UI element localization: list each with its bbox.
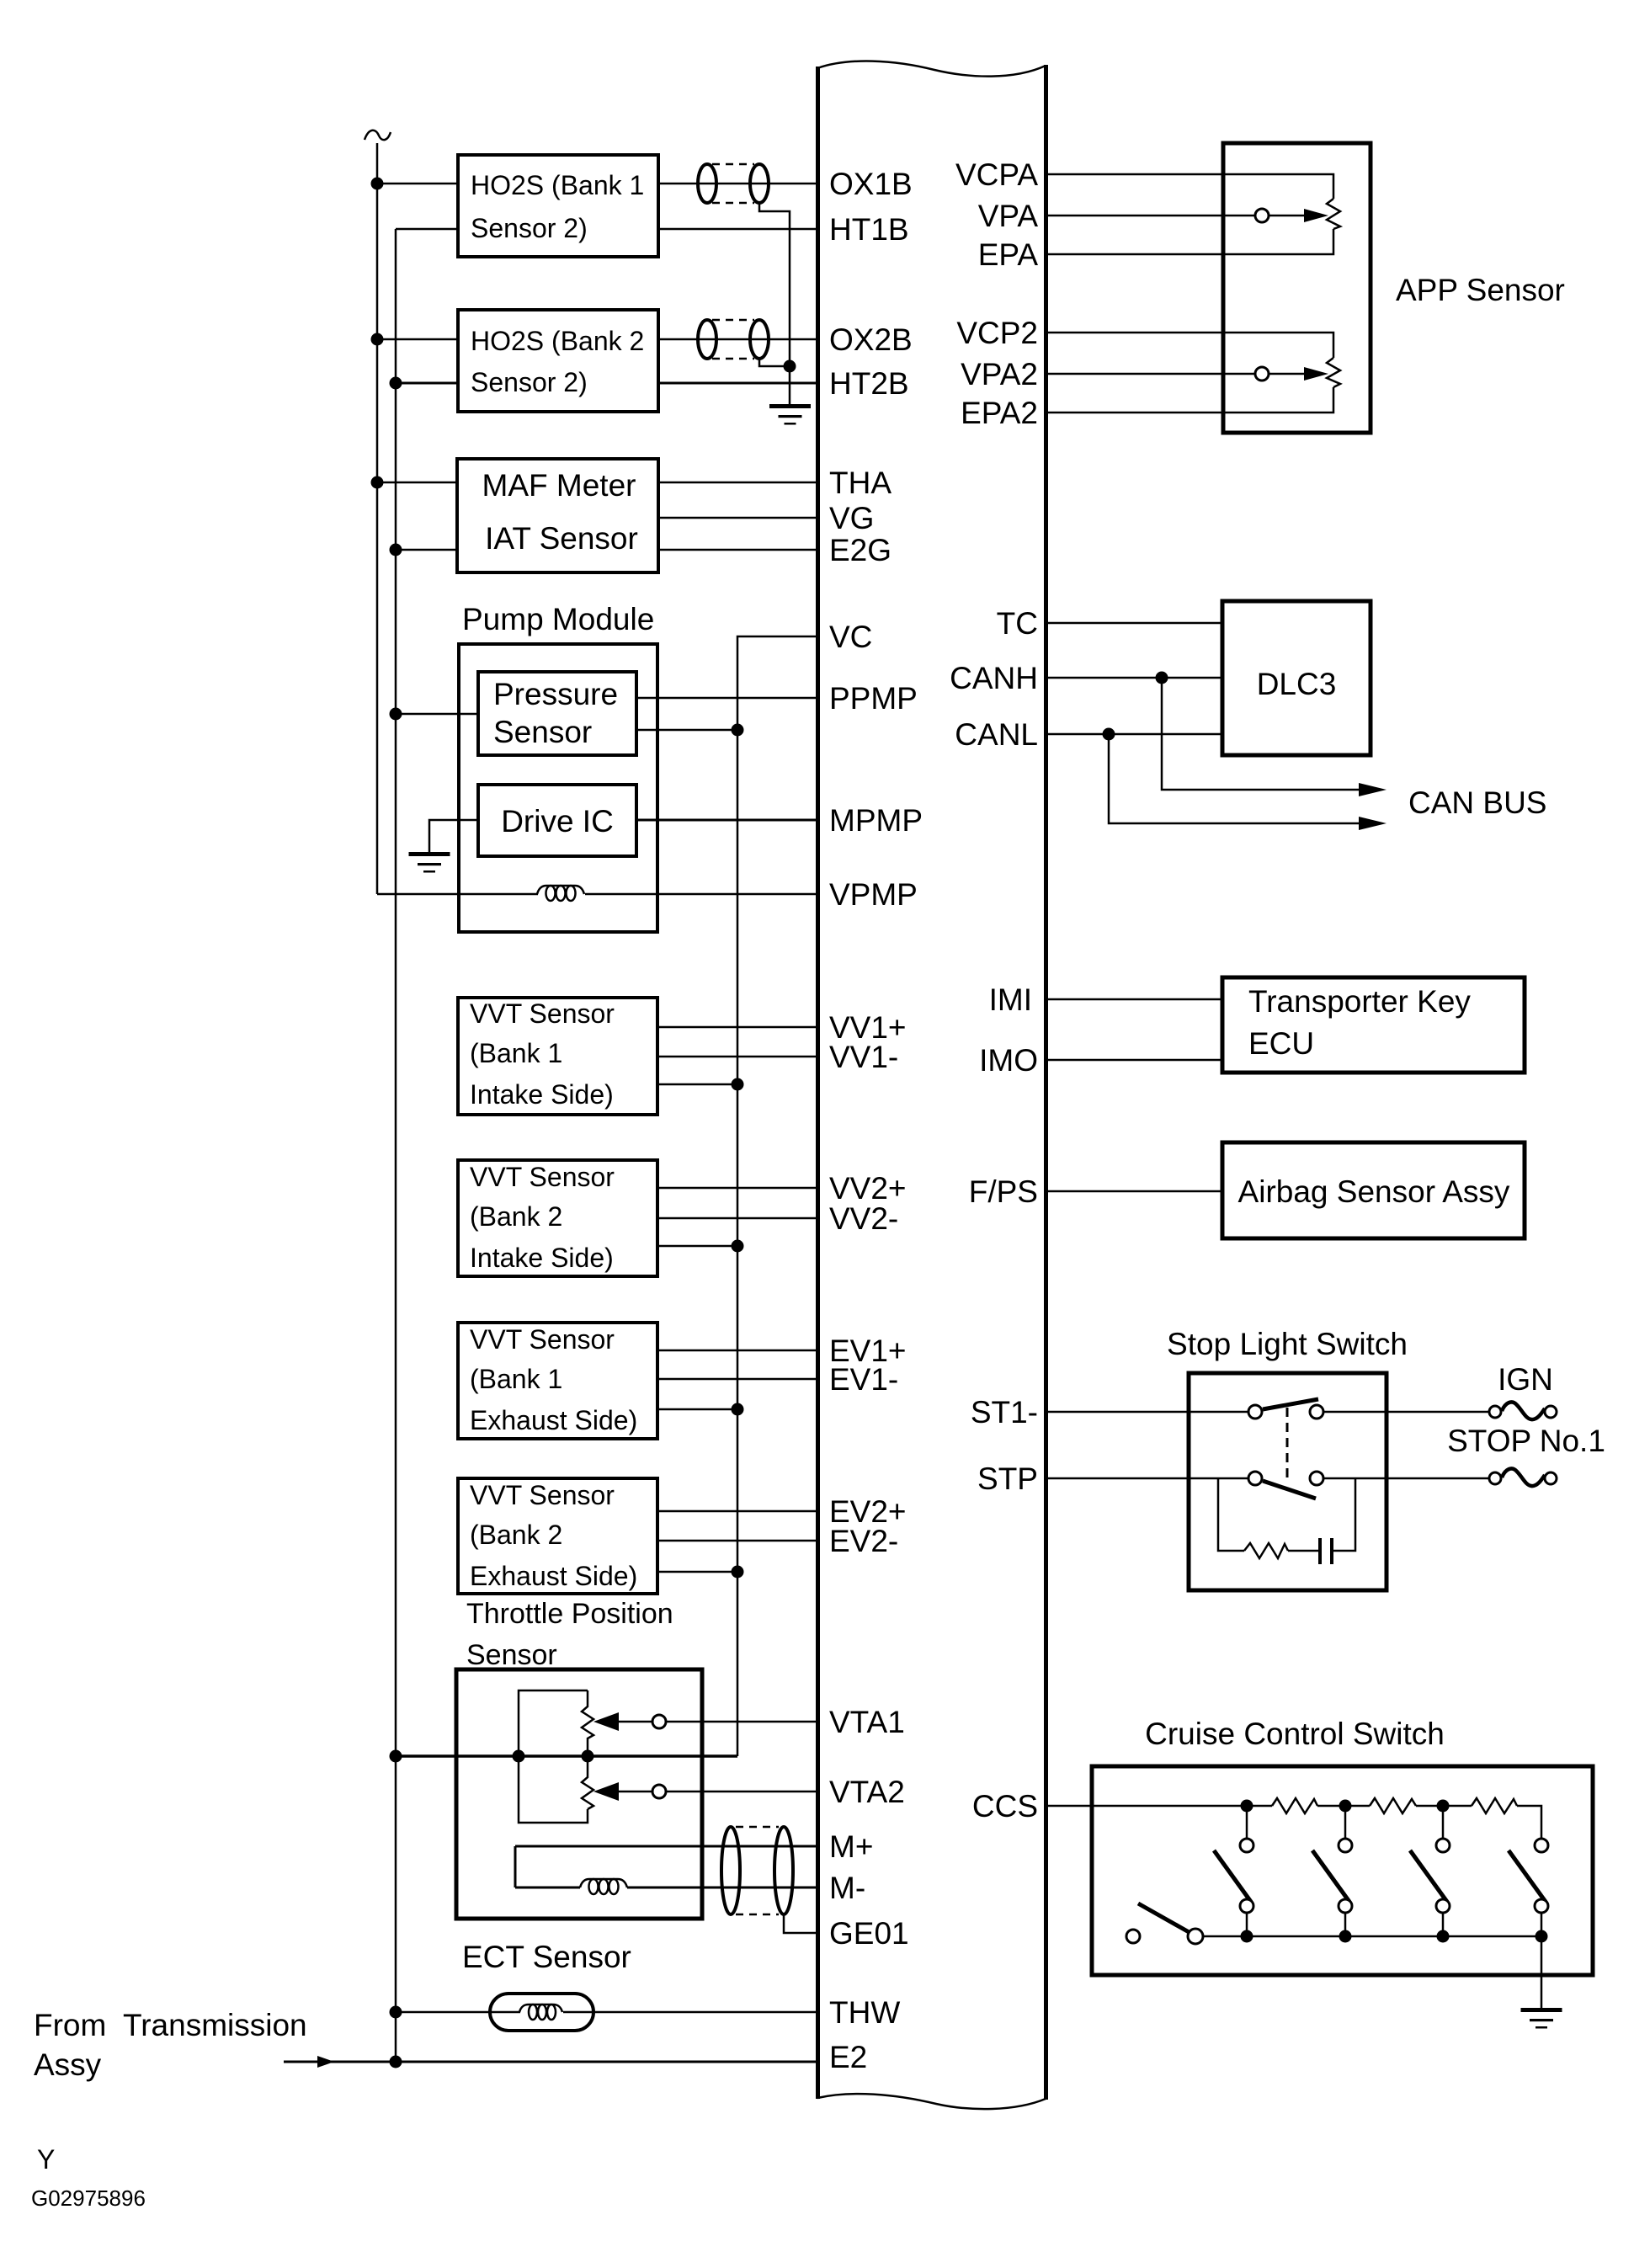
svg-text:Pump Module: Pump Module: [462, 602, 654, 636]
shielded cable symbol M oval 1: [721, 1827, 740, 1914]
wire OX1B: [658, 183, 816, 185]
switch blade cruise main: [1138, 1903, 1190, 1933]
ECU connector top wavy edge: [817, 61, 1046, 77]
wire cruise stub 2: [1344, 1806, 1347, 1839]
svg-text:HO2S (Bank 1: HO2S (Bank 1: [471, 170, 644, 200]
svg-text:(Bank 2: (Bank 2: [470, 1201, 562, 1232]
junction bus2 HO2S bank2 heater: [390, 377, 402, 390]
arrow CAN bus L: [1359, 817, 1387, 830]
svg-text:IMO: IMO: [979, 1043, 1038, 1078]
fuse STOP No.1 element: [1502, 1468, 1545, 1486]
svg-text:VCP2: VCP2: [956, 316, 1038, 350]
power bus continuation squiggle: [365, 130, 391, 140]
junction bus1 MAF: [371, 476, 384, 489]
svg-text:OX2B: OX2B: [829, 322, 913, 357]
HO2S (Bank 1 Sensor 2) box: [458, 155, 658, 257]
resistor stop light snubber: [1244, 1543, 1288, 1558]
wire shield drain bank2: [759, 359, 790, 366]
svg-text:HO2S (Bank 2: HO2S (Bank 2: [471, 326, 644, 356]
fuse IGN element: [1502, 1402, 1545, 1419]
svg-text:From: From: [34, 2008, 106, 2042]
wire OX2B: [658, 338, 816, 341]
svg-text:ECU: ECU: [1248, 1026, 1314, 1061]
svg-text:THW: THW: [829, 1995, 900, 2030]
switch contact cruise main throw: [1188, 1929, 1203, 1944]
wire EV1+: [657, 1350, 816, 1352]
svg-text:Exhaust Side): Exhaust Side): [470, 1561, 637, 1591]
wire VPMP right segment: [585, 893, 816, 896]
resistor APP pot 1: [1327, 199, 1340, 229]
APP Sensor box: [1223, 143, 1371, 433]
svg-text:IAT Sensor: IAT Sensor: [485, 521, 638, 556]
VVT Sensor (Bank 1 Intake Side) box: [458, 998, 657, 1115]
wire EV1-: [657, 1378, 816, 1381]
junction VVT3 common: [732, 1403, 744, 1416]
wire CANL: [1048, 733, 1222, 736]
Pressure Sensor box: [478, 672, 636, 755]
ECT Sensor body: [490, 1994, 593, 2031]
svg-text:VPA: VPA: [978, 199, 1039, 233]
wire E2G: [658, 549, 816, 551]
wire cruise lower stub 1: [1246, 1913, 1248, 1936]
wiper contact circle VPA: [1255, 209, 1269, 222]
wire resistor to capacitor: [1288, 1550, 1319, 1552]
junction TPS track left: [513, 1750, 525, 1763]
wire pressure sensor to VC branch: [636, 729, 737, 732]
svg-text:Transporter Key: Transporter Key: [1248, 984, 1471, 1019]
wire VVT4 common: [657, 1571, 737, 1573]
switch contact cruise bottom 2: [1339, 1899, 1352, 1913]
junction bus1 HO2S bank2: [371, 333, 384, 346]
wire VC with vertical supply branch: [737, 636, 816, 1756]
wire EPA2: [1048, 387, 1333, 413]
ground symbol at Drive IC: [409, 852, 450, 873]
resistor cruise R3: [1472, 1798, 1517, 1813]
svg-text:VPMP: VPMP: [829, 877, 918, 912]
wire MPMP: [636, 819, 816, 822]
wiper arrow VPA: [1304, 209, 1328, 222]
svg-text:DLC3: DLC3: [1257, 667, 1337, 701]
wire cruise lower stub 3: [1442, 1913, 1445, 1936]
wiper contact circle VPA2: [1255, 367, 1269, 381]
switch contact STP right: [1310, 1472, 1323, 1485]
dashed mechanical link stop light switch: [1286, 1408, 1289, 1480]
wire CCS: [1048, 1805, 1272, 1807]
wire cruise rail seg3: [1416, 1805, 1472, 1807]
svg-text:OX1B: OX1B: [829, 167, 913, 201]
shield dashed bottom M: [736, 1914, 779, 1916]
svg-text:(Bank 1: (Bank 1: [470, 1364, 562, 1394]
shield dashed top OX1B: [712, 163, 754, 166]
wire CAN bus H branch: [1162, 678, 1360, 790]
switch contact cruise main pole: [1126, 1930, 1140, 1943]
svg-text:VPA2: VPA2: [961, 357, 1038, 391]
wire VPA wiper stub: [1269, 215, 1304, 217]
junction cruise bottom 1: [1241, 1930, 1253, 1943]
wire VV1+: [657, 1026, 816, 1029]
ECU connector right wall: [1044, 65, 1048, 2100]
switch contact STP left: [1248, 1472, 1262, 1485]
Stop Light Switch box: [1189, 1373, 1387, 1590]
wire VVT1 common: [657, 1083, 737, 1086]
HO2S (Bank 2 Sensor 2) box: [458, 310, 658, 412]
wiper arrow VTA1: [593, 1712, 619, 1731]
switch blade cruise 2: [1312, 1850, 1349, 1902]
svg-text:Sensor 2): Sensor 2): [471, 213, 588, 243]
junction bus2 THW: [390, 2006, 402, 2019]
Throttle Position Sensor box: [456, 1669, 702, 1919]
wire VV2-: [657, 1217, 816, 1220]
wire bus2 to Pressure Sensor: [396, 713, 478, 716]
svg-text:E2G: E2G: [829, 533, 892, 567]
shielded cable symbol OX2B oval 2: [750, 320, 769, 359]
inductor throttle motor coil: [580, 1879, 627, 1894]
wire PPMP: [636, 697, 816, 700]
wire CANH: [1048, 677, 1222, 679]
shielded cable symbol M oval 2: [774, 1827, 793, 1914]
svg-text:VVT Sensor: VVT Sensor: [470, 1324, 615, 1355]
wire VPMP left segment: [377, 893, 538, 896]
wire F/PS: [1048, 1190, 1222, 1193]
potentiometer track outline TPS: [519, 1690, 588, 1823]
svg-text:VV1-: VV1-: [829, 1040, 898, 1074]
wire VTA1 wiper stub: [619, 1721, 652, 1723]
wire EV2-: [657, 1540, 816, 1542]
ECU connector left wall: [816, 67, 820, 2099]
svg-text:(Bank 2: (Bank 2: [470, 1520, 562, 1550]
wire RC snubber right leg: [1333, 1478, 1355, 1551]
wire cruise stub 3: [1442, 1806, 1445, 1839]
wire throttle motor left side: [514, 1846, 517, 1887]
wire VVT3 common: [657, 1408, 737, 1411]
wire shield drain bank1: [759, 203, 790, 404]
svg-text:Transmission: Transmission: [123, 2008, 307, 2042]
inductor pump motor coil: [537, 886, 584, 901]
svg-text:GE01: GE01: [829, 1916, 909, 1951]
svg-text:Sensor: Sensor: [493, 715, 592, 749]
fuse STOP No.1 left terminal: [1489, 1472, 1501, 1484]
junction bus2 E2: [390, 2056, 402, 2068]
wire EV2+: [657, 1510, 816, 1513]
svg-text:F/PS: F/PS: [969, 1174, 1038, 1209]
ground symbol at HO2S shields: [769, 404, 811, 425]
ground symbol at cruise switch: [1521, 2008, 1562, 2029]
inductor ECT sensing element: [519, 2004, 562, 2020]
switch blade ST1: [1263, 1399, 1318, 1409]
wire M+: [515, 1845, 816, 1848]
arrow CAN bus H: [1359, 783, 1387, 796]
wire cruise lower stub 4: [1541, 1913, 1543, 1936]
VVT Sensor (Bank 2 Intake Side) box: [458, 1160, 657, 1276]
wire bus2 to IAT bottom: [396, 549, 457, 551]
svg-text:EV2-: EV2-: [829, 1524, 898, 1558]
junction VVT1 common: [732, 1078, 744, 1091]
junction VC pressure: [732, 724, 744, 737]
switch contact cruise top 2: [1339, 1839, 1352, 1852]
shield dashed top OX2B: [712, 319, 754, 322]
svg-text:HT1B: HT1B: [829, 212, 909, 247]
svg-text:Sensor 2): Sensor 2): [471, 367, 588, 397]
arrow from transmission: [317, 2056, 334, 2068]
MAF Meter / IAT Sensor box: [457, 459, 658, 572]
wire VV2+: [657, 1187, 816, 1190]
junction cruise rail 1: [1241, 1800, 1253, 1813]
svg-text:Stop Light Switch: Stop Light Switch: [1167, 1327, 1408, 1361]
fuse IGN right terminal: [1545, 1406, 1557, 1418]
svg-text:VVT Sensor: VVT Sensor: [470, 1162, 615, 1192]
wire ST1-: [1048, 1411, 1249, 1414]
wire VG: [658, 517, 816, 519]
svg-text:THA: THA: [829, 466, 892, 500]
svg-text:STOP No.1: STOP No.1: [1447, 1424, 1605, 1458]
wire VTA2: [666, 1791, 816, 1793]
svg-text:Throttle Position: Throttle Position: [466, 1598, 673, 1630]
Airbag Sensor Assy box: [1222, 1142, 1525, 1238]
wire VTA1: [666, 1721, 816, 1723]
junction cruise rail 2: [1339, 1800, 1352, 1813]
wire bus1 to HO2S bank2 top: [377, 338, 458, 341]
svg-text:Y: Y: [37, 2144, 55, 2175]
Transporter Key ECU box: [1222, 977, 1525, 1073]
svg-text:Intake Side): Intake Side): [470, 1079, 614, 1110]
svg-text:EV1-: EV1-: [829, 1362, 898, 1397]
VVT Sensor (Bank 2 Exhaust Side) box: [458, 1478, 657, 1594]
wiper arrow VTA2: [593, 1782, 619, 1801]
junction shield drains: [784, 360, 796, 373]
svg-text:TC: TC: [997, 606, 1038, 641]
svg-text:ECT Sensor: ECT Sensor: [462, 1940, 631, 1974]
wire EPA: [1048, 229, 1333, 254]
svg-text:M-: M-: [829, 1871, 865, 1905]
wire IMO: [1048, 1059, 1222, 1062]
wire cruise rail seg2: [1317, 1805, 1370, 1807]
svg-text:Drive IC: Drive IC: [501, 804, 614, 839]
shield dashed bottom OX1B: [712, 202, 754, 205]
junction bus2 pressure: [390, 708, 402, 721]
shielded cable symbol OX1B oval 1: [698, 164, 716, 203]
wire M- right segment: [627, 1887, 816, 1889]
wire GE01 shield drain: [784, 1914, 816, 1933]
shielded cable symbol OX1B oval 2: [750, 164, 769, 203]
svg-text:CANL: CANL: [955, 717, 1038, 752]
junction cruise bottom 4: [1536, 1930, 1548, 1943]
resistor TPS upper track: [582, 1690, 593, 1756]
svg-text:VG: VG: [829, 501, 874, 535]
svg-text:VCPA: VCPA: [955, 157, 1038, 192]
junction CANH branch: [1156, 672, 1168, 684]
switch contact cruise top 3: [1436, 1839, 1450, 1852]
wire cruise stub 1: [1246, 1806, 1248, 1839]
wire M- left segment: [515, 1887, 580, 1889]
switch contact cruise bottom 4: [1535, 1899, 1548, 1913]
wire power bus 1 vertical: [376, 143, 379, 894]
Pump Module outer box: [459, 644, 657, 932]
svg-text:APP Sensor: APP Sensor: [1396, 273, 1565, 307]
svg-text:MAF Meter: MAF Meter: [482, 468, 636, 503]
svg-text:VC: VC: [829, 620, 872, 654]
junction cruise rail 3: [1437, 1800, 1450, 1813]
ECU connector bottom wavy edge: [817, 2094, 1046, 2109]
wire VTA2 wiper stub: [619, 1791, 652, 1793]
switch contact ST1 left: [1248, 1405, 1262, 1419]
switch blade cruise 3: [1410, 1850, 1447, 1902]
wire HT1B: [658, 228, 816, 231]
svg-text:IMI: IMI: [989, 982, 1032, 1017]
VVT Sensor (Bank 1 Exhaust Side) box: [458, 1323, 657, 1439]
wire IMI: [1048, 998, 1222, 1001]
svg-text:Airbag Sensor Assy: Airbag Sensor Assy: [1238, 1174, 1510, 1209]
junction bus2 TPS common: [390, 1750, 402, 1763]
wiper contact circle VTA1: [652, 1715, 666, 1728]
wire CAN bus L branch: [1109, 734, 1360, 823]
switch contact cruise bottom 3: [1436, 1899, 1450, 1913]
capacitor stop light snubber: [1318, 1538, 1333, 1564]
svg-text:(Bank 1: (Bank 1: [470, 1038, 562, 1068]
wire ST1- to IGN fuse: [1323, 1411, 1489, 1414]
wire STP: [1048, 1477, 1249, 1480]
wire bus1 to HO2S bank1 top: [377, 183, 458, 185]
wire RC snubber left leg: [1218, 1478, 1244, 1551]
wire VCPA: [1048, 174, 1333, 199]
wire THW left: [396, 2011, 520, 2014]
wire cruise rail end down: [1517, 1806, 1541, 1839]
shield dashed bottom OX2B: [712, 358, 754, 360]
DLC3 box: [1222, 601, 1371, 755]
svg-text:VV2-: VV2-: [829, 1201, 898, 1236]
fuse IGN left terminal: [1489, 1406, 1501, 1418]
svg-text:VV2+: VV2+: [829, 1171, 907, 1206]
wire VV1-: [657, 1056, 816, 1058]
svg-text:M+: M+: [829, 1829, 873, 1864]
svg-text:CAN BUS: CAN BUS: [1408, 785, 1546, 820]
svg-text:E2: E2: [829, 2040, 867, 2074]
switch contact cruise top 4: [1535, 1839, 1548, 1852]
wire cruise lower stub 2: [1344, 1913, 1347, 1936]
resistor cruise R2: [1370, 1798, 1416, 1813]
junction bus1 HO2S bank1: [371, 178, 384, 190]
wire VPA2 wiper stub: [1269, 373, 1304, 375]
switch contact ST1 right: [1310, 1405, 1323, 1419]
svg-text:IGN: IGN: [1498, 1362, 1553, 1397]
wire bus2 to HO2S bank1 row2: [396, 228, 458, 231]
wire STP to STOP fuse: [1323, 1477, 1489, 1480]
junction TPS track right: [582, 1750, 594, 1763]
junction VVT4 common: [732, 1566, 744, 1579]
wire VCP2: [1048, 333, 1333, 358]
shielded cable symbol OX2B oval 1: [698, 320, 716, 359]
fuse STOP No.1 right terminal: [1545, 1472, 1557, 1484]
svg-text:MPMP: MPMP: [829, 803, 923, 838]
switch blade STP: [1263, 1481, 1316, 1499]
svg-text:CCS: CCS: [972, 1789, 1038, 1823]
svg-text:STP: STP: [977, 1461, 1038, 1496]
wire Drive IC to ground: [429, 820, 478, 852]
wire TPS common thick: [397, 1754, 737, 1758]
wiper contact circle VTA2: [652, 1785, 666, 1798]
switch blade cruise 1: [1214, 1850, 1251, 1902]
svg-text:EPA2: EPA2: [961, 396, 1038, 430]
svg-text:PPMP: PPMP: [829, 681, 918, 716]
wire HT2B: [658, 382, 816, 385]
svg-text:CANH: CANH: [950, 661, 1038, 695]
shield dashed top M: [736, 1826, 779, 1829]
wire cruise to ground: [1541, 1936, 1543, 2008]
resistor TPS lower track: [582, 1756, 593, 1809]
wire cruise bottom rail: [1203, 1935, 1541, 1938]
svg-text:Exhaust Side): Exhaust Side): [470, 1405, 637, 1435]
junction bus2 IAT: [390, 544, 402, 556]
svg-text:Pressure: Pressure: [493, 677, 618, 711]
resistor cruise R1: [1272, 1798, 1317, 1813]
svg-text:Intake Side): Intake Side): [470, 1243, 614, 1273]
wire bus2 to HO2S bank2 row2: [396, 382, 458, 385]
svg-text:ST1-: ST1-: [971, 1395, 1038, 1429]
Drive IC box: [478, 785, 636, 856]
wire THW right: [563, 2011, 816, 2014]
wire E2 from transmission: [284, 2061, 816, 2063]
junction CANL branch: [1103, 728, 1115, 741]
junction cruise bottom 3: [1437, 1930, 1450, 1943]
wire bus1 to MAF top: [377, 482, 457, 484]
resistor APP pot 2: [1327, 358, 1340, 387]
svg-text:G02975896: G02975896: [31, 2185, 146, 2211]
switch contact cruise top 1: [1240, 1839, 1253, 1852]
svg-text:Sensor: Sensor: [466, 1639, 557, 1671]
svg-text:HT2B: HT2B: [829, 366, 909, 401]
wire VVT2 common: [657, 1245, 737, 1248]
wire VPA2: [1048, 373, 1255, 375]
svg-text:VTA1: VTA1: [829, 1705, 905, 1739]
svg-text:Assy: Assy: [34, 2047, 102, 2082]
Cruise Control Switch box: [1092, 1766, 1593, 1975]
wire power bus 2 vertical: [395, 229, 397, 2062]
wire THA: [658, 482, 816, 484]
svg-text:Cruise Control Switch: Cruise Control Switch: [1145, 1717, 1445, 1751]
junction cruise bottom 2: [1339, 1930, 1352, 1943]
junction VVT2 common: [732, 1240, 744, 1253]
svg-text:EPA: EPA: [978, 237, 1039, 272]
switch contact cruise bottom 1: [1240, 1899, 1253, 1913]
svg-text:VVT Sensor: VVT Sensor: [470, 1480, 615, 1510]
wiper arrow VPA2: [1304, 367, 1328, 381]
wire TC: [1048, 622, 1222, 625]
wire VPA: [1048, 215, 1255, 217]
switch blade cruise 4: [1509, 1850, 1546, 1902]
svg-text:VTA2: VTA2: [829, 1775, 905, 1809]
svg-text:VVT Sensor: VVT Sensor: [470, 998, 615, 1029]
